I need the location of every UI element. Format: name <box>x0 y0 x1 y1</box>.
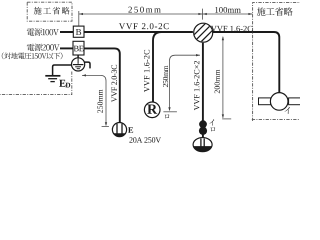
cable label VVF 2.0-3C rotated <box>111 65 116 102</box>
label katakana ro at switches <box>211 127 216 131</box>
dash-dot boundary around earth electrode <box>0 72 72 95</box>
cable label VVF 1.6-2C receptacle branch rotated <box>144 50 150 92</box>
text power source 100V <box>27 28 59 35</box>
text construction-omitted top-left <box>34 7 70 15</box>
label E for 20A outlet <box>128 127 133 133</box>
breaker BE (ELB) box <box>73 41 84 55</box>
dimension text 250mm receptacle branch rotated <box>163 66 168 88</box>
outlet (junction) box - hatched circle <box>194 23 213 42</box>
leader dimension 250mm lamp receptacle branch <box>170 55 201 110</box>
ceiling fixture circle with side boxes <box>259 98 271 105</box>
breaker B (MCB) box <box>73 26 84 37</box>
lamp receptacle R <box>144 102 160 118</box>
dimension text 100mm <box>215 7 241 13</box>
label 20A 250V <box>129 137 161 142</box>
wire: VVF1.6-2C x2 drop from junction box to switches <box>202 43 204 138</box>
text power source 200V <box>27 44 60 51</box>
ground electrode symbol ED <box>45 75 60 77</box>
wire: BE to earth terminal stub <box>77 55 79 58</box>
wire: 100V source through breaker B to junction box <box>60 31 193 33</box>
wire: VVF2.0-3C from BE down to 20A outlet <box>84 48 120 122</box>
wire: 200V source into breaker BE <box>60 47 73 49</box>
text construction-omitted top-right <box>257 7 293 16</box>
leader dimension 250mm outlet branch <box>82 75 106 125</box>
dimension text 250mm outlet branch rotated <box>97 89 102 112</box>
dimension text 250mm top <box>128 7 160 13</box>
wire: VVF1.6-2C from junction box right to fixture <box>212 32 279 93</box>
label katakana i at switches <box>209 119 214 125</box>
dimension line 100mm junction box to omitted part <box>203 13 253 15</box>
receptacle outlet below switches <box>193 138 212 152</box>
cable label VVF 1.6-2C to fixture <box>211 26 252 32</box>
receptacle outlet 20A250V with earth pole <box>112 123 126 137</box>
label katakana i at fixture <box>284 107 289 114</box>
text voltage-to-ground 150V max <box>2 52 63 59</box>
extension line above junction box <box>202 9 204 20</box>
dash-dot box construction-omitted top-left <box>27 2 72 21</box>
earth terminal circle with ground symbol below BE <box>72 58 85 71</box>
label ED <box>59 80 65 87</box>
wire: VVF1.6-2C branch down to lamp receptacle R <box>153 32 162 102</box>
extension line above breaker B <box>78 11 80 26</box>
cable label VVF 2.0-2C <box>119 23 169 29</box>
single-pole switch ro - lower dot <box>199 127 207 135</box>
wire: open stub right of earth terminal <box>84 62 90 68</box>
dash-dot boundary construction-omitted top-right <box>252 3 300 121</box>
dimension line 250mm B to junction box <box>79 13 203 15</box>
label katakana ro at lamp receptacle <box>165 115 169 119</box>
dimension line 200mm switch drop <box>222 37 224 118</box>
single-pole switch i - upper dot <box>199 120 207 128</box>
wire: earth terminal to earth electrode ED <box>53 65 72 75</box>
cable label VVF 1.6-2C x2 switch drop rotated <box>194 61 199 110</box>
dimension text 200mm rotated <box>215 70 220 94</box>
